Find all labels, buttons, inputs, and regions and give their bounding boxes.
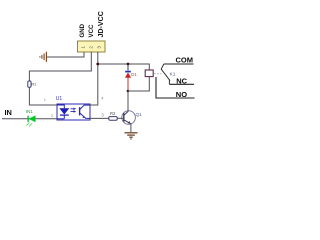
wire Q1 collector	[127, 91, 129, 111]
svg-text:3: 3	[96, 46, 101, 49]
relay armature	[161, 64, 170, 81]
opto internal LED	[57, 105, 69, 119]
wire JD-VCC vertical	[90, 52, 98, 105]
junction node	[127, 63, 130, 66]
svg-text:R2: R2	[110, 111, 116, 116]
Q1 emitter arrow	[128, 121, 131, 124]
wire VCC pin2 to R1	[29, 52, 91, 81]
svg-text:IN: IN	[5, 108, 12, 117]
wire R2 to base	[117, 117, 124, 119]
svg-text:GND: GND	[79, 23, 86, 37]
IN wire	[2, 118, 57, 120]
svg-text:COM: COM	[176, 55, 194, 64]
svg-text:2: 2	[88, 46, 93, 49]
wire R1 to opto pin1	[29, 87, 57, 105]
relay K1 coil	[145, 70, 153, 77]
svg-text:U1: U1	[56, 96, 63, 102]
resistor R2	[109, 117, 117, 121]
svg-text:R1: R1	[31, 81, 37, 86]
wire pin4 up	[90, 104, 98, 106]
svg-text:D1: D1	[131, 72, 137, 77]
relay link dashes	[154, 73, 162, 75]
ground (bottom)	[125, 133, 138, 139]
wire relay coil bottom	[128, 77, 149, 91]
optocoupler U1 box	[57, 104, 90, 120]
connector P1 body	[78, 41, 106, 52]
svg-text:1: 1	[80, 46, 85, 49]
wire JD-VCC horizontal to relay	[98, 64, 150, 70]
resistor R1	[28, 81, 31, 87]
diode D1	[125, 64, 137, 91]
svg-text:JD-VCC: JD-VCC	[97, 11, 105, 37]
wire opto pin3 to R2	[90, 117, 109, 119]
ground (left, rotated)	[40, 52, 47, 62]
opto emitter arrow	[83, 116, 86, 118]
svg-text:NO: NO	[176, 90, 187, 99]
transistor Q1	[122, 111, 136, 125]
junction node	[127, 90, 130, 93]
wire emitter to ground	[130, 124, 132, 133]
svg-text:NC: NC	[176, 76, 187, 85]
svg-text:Q1: Q1	[136, 112, 143, 117]
LED IN1	[26, 109, 36, 126]
svg-text:K1: K1	[170, 72, 176, 78]
svg-text:VCC: VCC	[88, 24, 95, 37]
COM wire	[164, 63, 194, 65]
opto phototransistor	[80, 105, 90, 118]
opto coupling arrows	[71, 108, 77, 113]
wire pin1 to ground	[47, 52, 85, 57]
NO wire	[156, 77, 195, 98]
NC contact	[168, 80, 170, 85]
svg-text:IN1: IN1	[26, 109, 34, 114]
junction node	[96, 63, 99, 66]
NC wire	[169, 83, 194, 85]
